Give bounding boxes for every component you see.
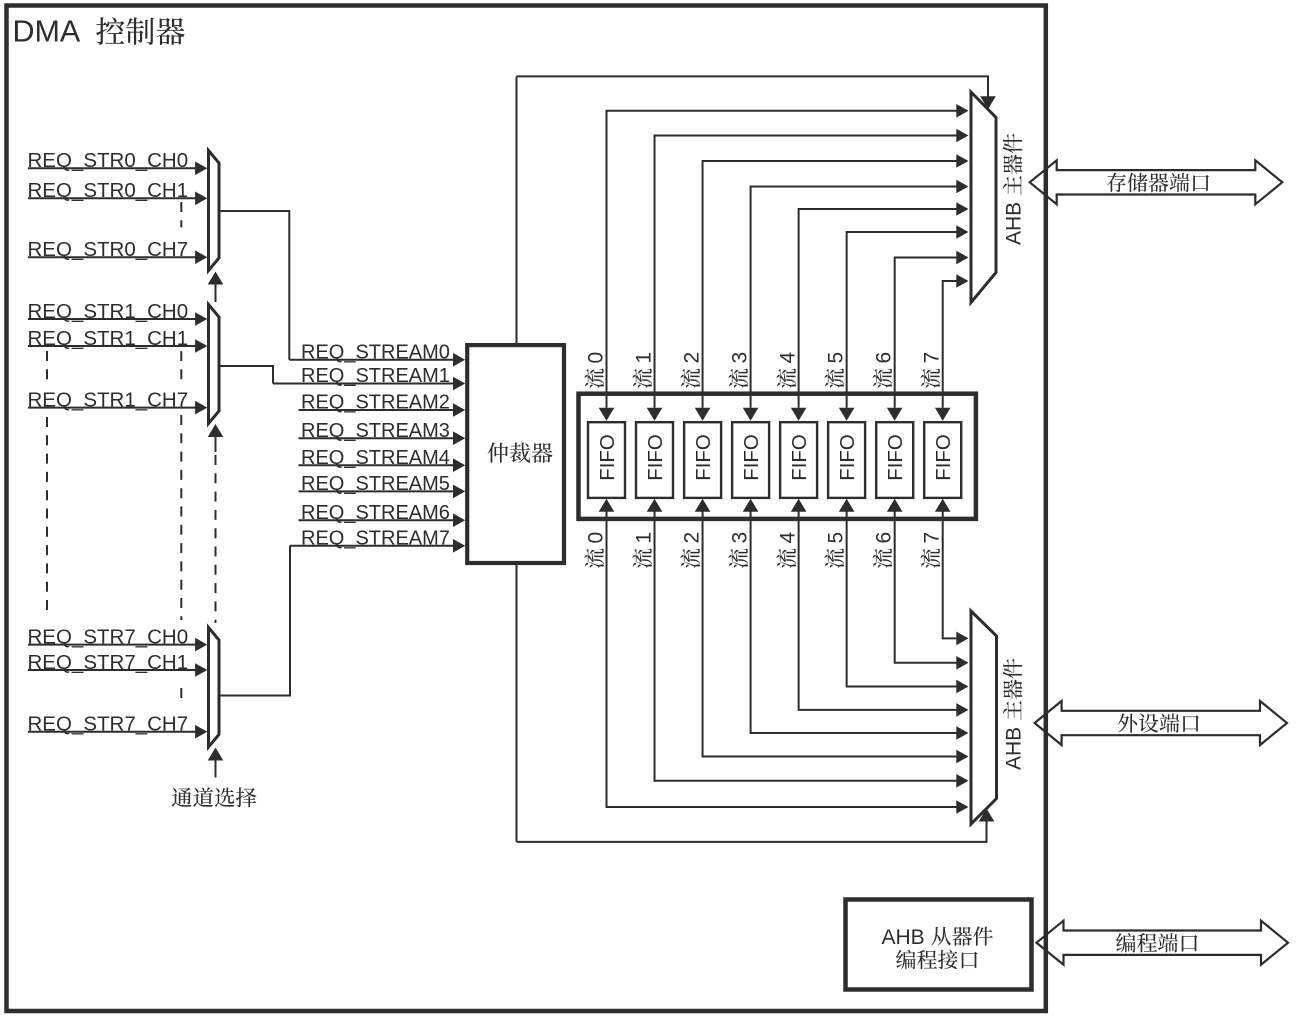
svg-text:FIFO: FIFO <box>645 434 667 480</box>
svg-text:2: 2 <box>680 532 703 544</box>
svg-text:REQ_STR7_CH1: REQ_STR7_CH1 <box>28 651 189 674</box>
svg-text:4: 4 <box>776 532 799 544</box>
svg-text:REQ_STR0_CH7: REQ_STR0_CH7 <box>28 238 189 261</box>
svg-text:REQ_STREAM4: REQ_STREAM4 <box>301 447 450 469</box>
svg-text:0: 0 <box>584 352 607 364</box>
svg-text:FIFO: FIFO <box>789 434 811 480</box>
svg-text:REQ_STREAM2: REQ_STREAM2 <box>301 392 450 414</box>
svg-text:2: 2 <box>680 352 703 364</box>
svg-text:4: 4 <box>776 352 799 364</box>
svg-text:FIFO: FIFO <box>837 434 859 480</box>
svg-text:FIFO: FIFO <box>693 434 715 480</box>
svg-text:0: 0 <box>584 532 607 544</box>
svg-text:1: 1 <box>632 532 655 544</box>
svg-text:FIFO: FIFO <box>741 434 763 480</box>
svg-text:REQ_STR1_CH7: REQ_STR1_CH7 <box>28 388 189 411</box>
svg-text:REQ_STREAM3: REQ_STREAM3 <box>301 420 450 442</box>
svg-text:REQ_STREAM7: REQ_STREAM7 <box>301 527 450 549</box>
svg-text:REQ_STR0_CH0: REQ_STR0_CH0 <box>28 149 189 172</box>
svg-text:REQ_STR1_CH0: REQ_STR1_CH0 <box>28 300 189 323</box>
svg-text:REQ_STREAM1: REQ_STREAM1 <box>301 365 450 387</box>
svg-text:7: 7 <box>921 532 944 544</box>
svg-text:REQ_STREAM0: REQ_STREAM0 <box>301 341 450 363</box>
svg-text:FIFO: FIFO <box>933 434 955 480</box>
svg-text:6: 6 <box>873 352 896 364</box>
svg-text:3: 3 <box>728 352 751 364</box>
svg-text:5: 5 <box>824 532 847 544</box>
svg-text:FIFO: FIFO <box>597 434 619 480</box>
svg-text:FIFO: FIFO <box>885 434 907 480</box>
svg-text:1: 1 <box>632 352 655 364</box>
svg-text:REQ_STR7_CH7: REQ_STR7_CH7 <box>28 713 189 736</box>
svg-text:3: 3 <box>728 532 751 544</box>
svg-text:7: 7 <box>921 352 944 364</box>
svg-text:AHB: AHB <box>1003 202 1026 245</box>
svg-text:REQ_STR1_CH1: REQ_STR1_CH1 <box>28 327 189 350</box>
svg-text:5: 5 <box>824 352 847 364</box>
svg-text:6: 6 <box>873 532 896 544</box>
svg-text:REQ_STREAM6: REQ_STREAM6 <box>301 502 450 524</box>
svg-text:REQ_STR0_CH1: REQ_STR0_CH1 <box>28 179 189 202</box>
svg-text:AHB: AHB <box>1003 727 1026 770</box>
svg-text:AHB: AHB <box>882 926 925 949</box>
svg-text:REQ_STR7_CH0: REQ_STR7_CH0 <box>28 625 189 648</box>
svg-text:REQ_STREAM5: REQ_STREAM5 <box>301 473 450 495</box>
svg-text:DMA: DMA <box>13 15 81 49</box>
